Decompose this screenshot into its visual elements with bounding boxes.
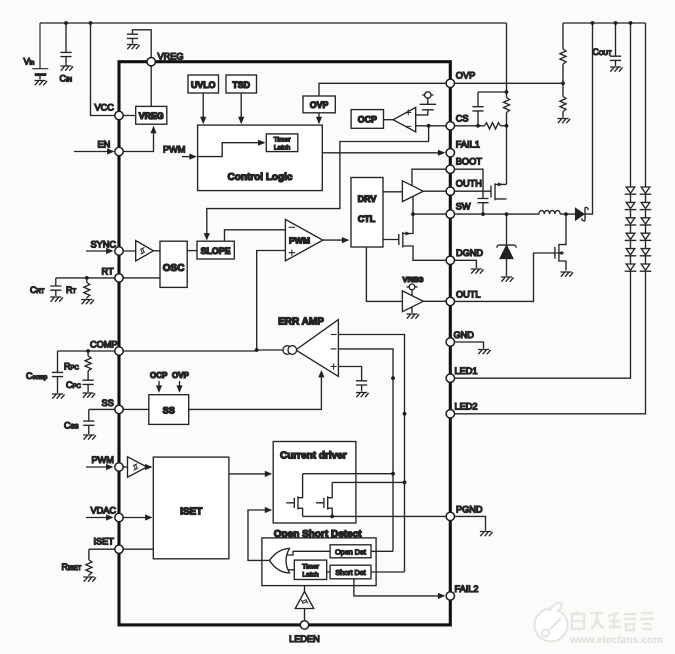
block SS soft start: [149, 395, 189, 425]
wire Short Det to FAIL2: [354, 579, 445, 599]
node RT external junction: [85, 276, 89, 280]
gate OR detect combine: [270, 548, 290, 573]
svg-text:GND: GND: [454, 330, 475, 340]
wire LED string 1 anode: [630, 23, 632, 187]
reference voltage OCP threshold: [420, 92, 437, 110]
node bootstrap cap at SW: [481, 212, 485, 216]
wire PWM buffer to ISET block: [145, 464, 152, 470]
wire BOOT pin to bootstrap cap: [450, 169, 483, 198]
wire PWM pin to buffer: [119, 466, 128, 468]
wire COMP external: [58, 350, 120, 352]
buffer PWM schmitt: [128, 457, 147, 477]
wire SW node: [450, 213, 539, 215]
pin LED2: [446, 410, 454, 418]
svg-text:OVP: OVP: [172, 371, 190, 380]
node SW FET source junction: [505, 212, 509, 216]
supply node VREG for OUTL driver: [407, 284, 418, 296]
pin FAIL1: [446, 149, 454, 157]
svg-text:ERR AMP: ERR AMP: [278, 317, 324, 328]
node CS internal branch: [427, 124, 431, 128]
wire CS pin: [450, 125, 484, 127]
capacitor VREG bypass: [127, 30, 151, 58]
label Timer Latch detect: [302, 563, 320, 578]
wire VREG pin to regulator block: [150, 62, 152, 107]
node OVP divider tap: [561, 81, 565, 85]
svg-text:Open Det: Open Det: [335, 547, 366, 556]
wire SS to ERR AMP plus: [189, 370, 325, 409]
LED string 2 diodes: [640, 187, 652, 271]
block OCP: [351, 110, 383, 129]
svg-text:FAIL1: FAIL1: [456, 140, 480, 150]
svg-text:EN: EN: [98, 140, 111, 150]
wire OCP flag into SS: [156, 381, 162, 393]
svg-text:ISET: ISET: [180, 506, 202, 517]
node SW internal junction: [411, 212, 415, 216]
wire OVP pin to divider: [450, 82, 563, 84]
svg-text:LED2: LED2: [455, 402, 478, 412]
resistor RISET: [86, 549, 92, 576]
ground CSS: [83, 435, 96, 440]
svg-text:PGND: PGND: [456, 505, 483, 515]
wire LED2 net vertical: [404, 414, 406, 572]
pin OUTL: [446, 297, 454, 305]
wire Vin drop to sense resistor: [506, 23, 508, 98]
wire ERR AMP output to COMP pin: [119, 350, 296, 351]
LED string 1 diodes: [625, 187, 637, 271]
wire CS resistor to sense node: [501, 125, 507, 127]
wire RT external: [56, 277, 119, 279]
wire VDAC input arrow: [86, 514, 114, 520]
ground OVP divider: [557, 119, 570, 124]
node LED2 pin junction: [403, 412, 407, 416]
wire ERR AMP minus1 to LED2 net: [338, 335, 404, 414]
wire buffer to OSC: [153, 250, 160, 252]
node COMP external junction: [86, 349, 90, 353]
block UVLO: [188, 75, 219, 93]
node Vin rail junction CIN: [64, 21, 68, 25]
pin COMP: [115, 347, 123, 355]
wire LED1 net vertical: [392, 378, 394, 551]
svg-text:OCP: OCP: [150, 371, 168, 380]
ground ERR AMP reference: [356, 393, 369, 398]
resistor current sense: [504, 98, 510, 185]
wire ERR AMP minus2 to LED1 net: [338, 349, 393, 378]
wire driver to OUTL pin: [423, 300, 450, 302]
block VREG regulator: [136, 106, 167, 124]
wire SW internal: [413, 197, 450, 214]
svg-text:Timer: Timer: [274, 137, 292, 144]
node sense FET drain tap: [564, 212, 568, 216]
wire PWM comparator output to DRV CTL: [323, 237, 350, 243]
block Open Short Detect: [262, 538, 376, 586]
wire Timer Latch to OR gate: [287, 569, 294, 571]
buffer SYNC schmitt: [136, 241, 154, 262]
svg-text:SW: SW: [456, 202, 471, 212]
wire Open Det to OR gate: [287, 551, 330, 555]
wire diode to output rail riser: [585, 23, 593, 214]
pin PWM: [115, 463, 123, 471]
ground CRT: [50, 297, 63, 302]
resistor OVP divider lower: [560, 83, 566, 117]
battery Vin: [32, 23, 48, 80]
pin PGND: [446, 512, 454, 520]
pin BOOT: [446, 165, 454, 173]
node output rail COUT: [614, 21, 618, 25]
pin FAIL2: [446, 592, 454, 600]
ground DGND: [471, 269, 484, 274]
block Timer Latch: [266, 134, 298, 152]
pin OVP: [446, 79, 454, 87]
resistor RPC: [85, 351, 91, 371]
block ISET: [153, 457, 229, 559]
wire driver to OUTH pin: [423, 190, 450, 192]
svg-text:DRV: DRV: [358, 194, 377, 204]
resistor OVP divider upper: [560, 23, 566, 83]
resistor RT: [84, 278, 90, 299]
pin EN: [115, 147, 123, 155]
ground CIN: [60, 66, 73, 71]
svg-text:COMP: COMP: [90, 340, 118, 350]
svg-text:SLOPE: SLOPE: [201, 246, 231, 256]
pin SW: [446, 210, 454, 218]
block Open Det: [330, 545, 371, 558]
wire VCC feed: [91, 23, 120, 116]
wire LED string 2 cathode to LED2 pin: [450, 271, 645, 414]
diode D1 series schottky: [576, 207, 589, 221]
op-amp high side gate driver: [402, 181, 423, 202]
wire ISET pin external: [89, 548, 119, 550]
label Timer Latch: [274, 137, 292, 152]
ground OUTL driver: [406, 307, 419, 319]
buffer LEDEN schmitt: [295, 586, 313, 621]
block Short Det inner: [330, 565, 371, 579]
pin CS: [446, 122, 454, 130]
wire SYNC input arrow: [86, 248, 114, 254]
svg-text:ISET: ISET: [94, 537, 115, 547]
transistor Q5 current driver right: [316, 482, 332, 516]
ground Q3 source: [560, 272, 573, 277]
svg-text:www.elecfans.com: www.elecfans.com: [569, 635, 663, 646]
svg-text:BOOT: BOOT: [456, 157, 482, 167]
ground Ccomp: [52, 394, 65, 399]
pin RT: [115, 274, 123, 282]
wire OCP comparator output: [384, 119, 394, 121]
svg-text:Latch: Latch: [274, 145, 291, 152]
svg-text:PWM: PWM: [163, 145, 185, 155]
capacitor COUT: [610, 23, 621, 66]
wire FAIL1 output: [322, 150, 445, 156]
op-amp PWM comparator: [285, 219, 322, 261]
svg-text:OUTL: OUTL: [456, 290, 481, 300]
wire DGND pin ground stub: [450, 260, 476, 268]
wire VCC pin to VREG block: [119, 115, 136, 117]
watermark elecfans logo: [535, 603, 568, 642]
wire COMP to PWM comparator plus: [257, 251, 286, 351]
capacitor ERR AMP reference: [356, 381, 367, 392]
svg-text:SS: SS: [163, 405, 175, 415]
wire PWM into control logic: [182, 154, 197, 160]
ground CPC: [83, 393, 96, 398]
svg-text:LEDEN: LEDEN: [289, 634, 320, 644]
wire DRV to low side driver: [366, 247, 402, 301]
svg-text:Timer: Timer: [302, 563, 320, 570]
capacitor bootstrap: [477, 199, 488, 215]
ground GND: [478, 350, 491, 355]
op-amp OCP comparator: [393, 107, 416, 131]
wire DRV to high side driver: [383, 191, 402, 193]
wire OCP comparator plus input: [416, 110, 428, 115]
wire OVP block to control logic: [316, 113, 322, 124]
wire OCP comparator minus input to CS pin: [416, 125, 451, 127]
capacitor CS filter: [472, 92, 483, 126]
svg-text:SS: SS: [102, 398, 114, 408]
svg-text:OVP: OVP: [456, 71, 475, 81]
ground D2: [501, 277, 514, 282]
pin VREG: [147, 58, 155, 66]
capacitor Ccomp: [52, 351, 63, 393]
pin LEDEN: [300, 621, 308, 629]
svg-text:CS: CS: [456, 114, 469, 124]
capacitor CRT: [50, 278, 61, 296]
svg-text:OUTH: OUTH: [456, 179, 482, 189]
svg-text:VREG: VREG: [158, 52, 184, 62]
wire OR gate to current driver: [248, 507, 272, 561]
svg-text:VREG: VREG: [403, 275, 424, 284]
transistor Q2 internal NFET: [383, 214, 450, 260]
svg-text:LED1: LED1: [455, 366, 478, 376]
wire CS filter top: [478, 91, 507, 93]
svg-text:TSD: TSD: [232, 80, 250, 90]
IC package boundary: [119, 62, 450, 625]
wire control logic to timer latch: [198, 140, 266, 157]
block SLOPE: [197, 241, 234, 259]
ground Vin battery: [34, 81, 47, 86]
node source rail junction: [330, 515, 334, 519]
wire LED1 net into Open Det: [371, 550, 393, 552]
wire source rail to PGND: [303, 515, 451, 517]
block Control Logic: [198, 125, 323, 191]
pin VDAC: [115, 513, 123, 521]
ground VREG bypass cap: [127, 45, 140, 50]
wire RT pin to OSC: [119, 277, 160, 279]
wire CS to slope compensation: [204, 126, 429, 241]
node Vin rail junction VCC: [89, 21, 93, 25]
resistor CS filter series: [485, 123, 501, 129]
watermark elecfans chinese text: [572, 611, 654, 630]
svg-text:OVP: OVP: [310, 100, 329, 110]
diode D2 freewheel schottky: [497, 214, 516, 276]
wire LED2 net into Short Det: [371, 571, 405, 573]
wire EN input arrow: [74, 148, 115, 154]
pin ISET: [115, 545, 123, 553]
wire Vin input rail: [40, 22, 507, 24]
wire LED string 2 anode: [645, 23, 647, 187]
pin LED1: [446, 374, 454, 382]
wire SS pin to SS block: [119, 408, 149, 410]
ground RT resistor: [81, 300, 94, 305]
svg-text:SYNC: SYNC: [91, 240, 117, 250]
op-amp ERR AMP: [296, 320, 339, 377]
pin SYNC: [115, 247, 123, 255]
capacitor CPC: [83, 371, 94, 392]
svg-text:DGND: DGND: [456, 248, 483, 258]
wire OUTL to Q3 gate: [450, 253, 556, 301]
wire OVP pin to OVP block: [319, 83, 450, 96]
wire UVLO to control logic: [200, 93, 206, 124]
svg-text:Latch: Latch: [302, 571, 319, 578]
op-amp low side gate driver: [402, 291, 423, 312]
wire boost output rail: [563, 22, 646, 24]
wire ERR AMP plus to reference cap: [338, 367, 361, 381]
svg-text:Current driver: Current driver: [280, 451, 347, 462]
svg-text:VDAC: VDAC: [91, 506, 117, 516]
svg-text:CTL: CTL: [358, 214, 376, 224]
inductor L1: [539, 210, 560, 214]
wire GND pin ground stub: [450, 342, 483, 349]
pin SS: [115, 405, 123, 413]
svg-text:OSC: OSC: [163, 263, 185, 274]
wire PWM pin input arrow: [86, 464, 114, 470]
wire ISET pin to block: [119, 548, 153, 550]
label DRV CTL: [358, 194, 377, 224]
pin GND: [446, 338, 454, 346]
node CS filter cap bottom: [476, 124, 480, 128]
wire Q5 drain to LED2 net: [332, 481, 404, 483]
block DRV CTL: [351, 178, 383, 248]
wire OVP flag into SS: [176, 381, 182, 393]
node LED1 pin junction: [391, 376, 395, 380]
pin DGND: [446, 256, 454, 264]
svg-text:UVLO: UVLO: [191, 80, 216, 90]
capacitor CIN: [60, 23, 71, 66]
node COMP internal junction: [255, 348, 259, 352]
node LED1 current driver junction: [391, 472, 395, 476]
pin VCC: [115, 111, 123, 119]
pin OUTH: [446, 187, 454, 195]
block Timer Latch detect: [294, 560, 326, 579]
wire EN to VREG block enable: [119, 126, 157, 152]
wire TSD to control logic: [238, 93, 244, 124]
transistor Q1 external high-side NFET: [450, 182, 506, 200]
ground RISET: [83, 577, 96, 582]
block Current driver: [273, 442, 356, 524]
wire Q4 drain to LED1 net: [303, 473, 393, 475]
node sense resistor bottom: [505, 124, 509, 128]
wire LED string 1 cathode to LED1 pin: [450, 271, 630, 378]
wire inductor to diode: [560, 213, 575, 215]
wire PGND pin ground stub: [450, 516, 485, 530]
wire SLOPE to PWM comparator minus: [225, 230, 286, 241]
ERR AMP transconductance output symbol: [283, 346, 297, 355]
wire Timer Latch to Short Det: [327, 571, 330, 573]
wire VDAC to ISET block: [119, 514, 153, 520]
ground COUT: [610, 67, 623, 72]
wire SS external: [89, 408, 119, 410]
node LED2 current driver junction: [403, 481, 407, 485]
node sense resistor top: [505, 90, 509, 94]
svg-text:Control Logic: Control Logic: [228, 172, 293, 183]
svg-text:PWM: PWM: [289, 236, 310, 246]
block TSD: [226, 75, 257, 93]
svg-text:FAIL2: FAIL2: [455, 584, 479, 594]
wire OSC to SLOPE: [187, 250, 197, 252]
ground PGND: [480, 532, 493, 537]
node output rail LED string 1: [629, 21, 633, 25]
wire BOOT pin to driver supply: [412, 169, 450, 186]
transistor Q3 external sense NFET: [555, 214, 566, 270]
wire ISET to current driver: [229, 471, 272, 477]
svg-text:VREG: VREG: [139, 111, 164, 121]
wire SYNC pin to buffer: [119, 250, 136, 252]
svg-text:RT: RT: [102, 267, 114, 277]
capacitor CSS: [83, 409, 94, 434]
svg-text:OCP: OCP: [358, 115, 377, 125]
node output rail diode riser: [591, 21, 595, 25]
svg-text:PWM: PWM: [92, 455, 114, 465]
block OSC: [160, 241, 187, 287]
svg-text:Short Det: Short Det: [335, 568, 365, 577]
svg-text:VCC: VCC: [95, 103, 115, 113]
block OVP comparator: [303, 96, 335, 113]
transistor Q4 current driver left: [286, 474, 302, 517]
